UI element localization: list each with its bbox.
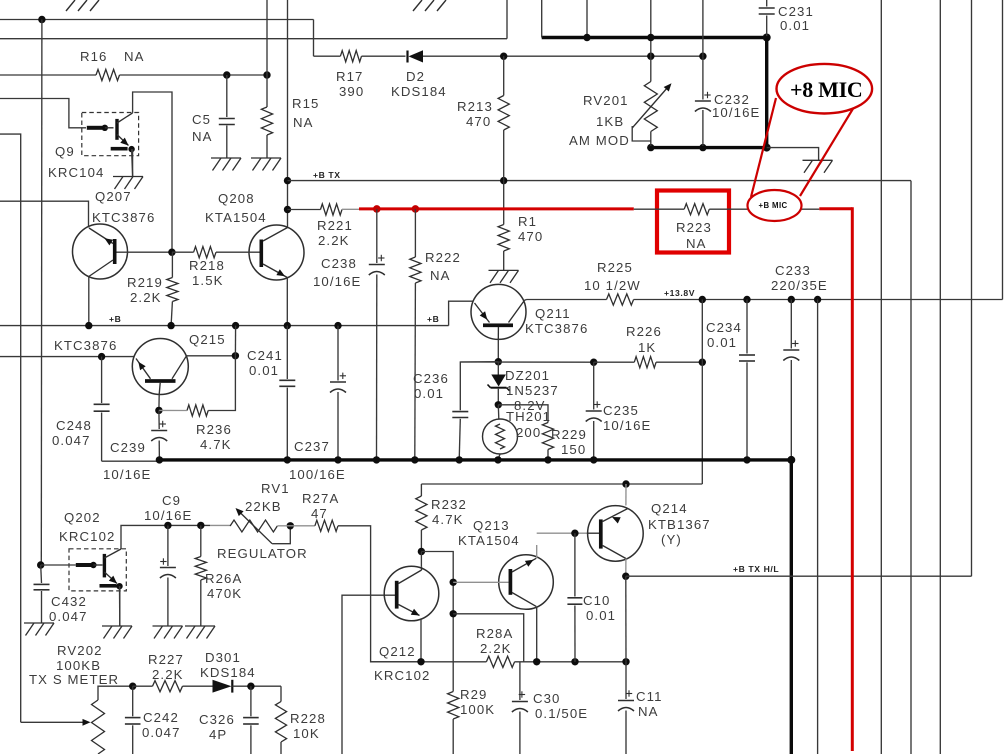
junction (101.6,356.6) [98,353,105,360]
label C231 [778,4,814,33]
vertical x=267 top [266,0,268,75]
svg-text:+B TX: +B TX [313,170,341,180]
wire Q214 emitter lead [625,484,627,506]
ground under R26A [185,626,215,639]
wire left y=134 [0,134,21,722]
wire emitter row y=661.8 [371,661,626,663]
svg-text:10K: 10K [293,726,320,741]
label R229 [551,427,587,457]
junction (338,325.6) [334,322,341,329]
wire R218 left [172,251,194,253]
svg-text:10/16E: 10/16E [313,274,361,289]
wire R1-ground [503,251,505,270]
resistor R15 [261,107,272,135]
label R227 [148,652,184,682]
label R226 [626,324,662,355]
junction (766.7,37.5) [763,34,771,42]
label Q208 [205,191,267,225]
vertical rail x=881.3 [880,0,882,754]
label R17 [336,69,364,99]
wire Q214-C11 [625,576,627,662]
resistor R221 [321,204,343,215]
svg-text:D2: D2 [406,69,425,84]
dashed box Q202 [69,549,126,591]
svg-text:0.01: 0.01 [249,363,279,378]
red callout ellipse small [748,190,802,221]
svg-text:0.047: 0.047 [49,609,88,624]
svg-text:0.01: 0.01 [707,335,737,350]
wire Q215 base row [0,356,134,358]
junction (536.7,661.8) [533,658,540,665]
potentiometer RV201 [632,56,671,146]
label C238 [313,256,361,289]
label Q9 [48,144,104,180]
label Q214 [648,501,711,547]
svg-text:R28A: R28A [476,626,513,641]
label TH201 [506,409,551,440]
svg-text:470K: 470K [207,586,242,601]
svg-text:C248: C248 [56,418,92,433]
junction (702.3,362.2) [699,359,706,366]
junction (593.7,362.2) [590,359,597,366]
svg-text:KTB1367: KTB1367 [648,517,711,532]
red callout line left [751,98,776,197]
capacitor C234 [739,300,755,460]
label C232 [712,92,760,120]
transistor Q207 [73,224,172,326]
junction (226.8,75) [223,71,230,78]
svg-text:150: 150 [561,442,586,457]
wire R17-D2 [362,55,406,57]
label Q211 [525,306,588,336]
capacitor C241 [279,326,295,460]
junction (650.8,56.2) [647,53,654,60]
vertical rail x=41.5 [40,20,43,566]
svg-text:C231: C231 [778,4,814,19]
resistor R219 [167,278,178,302]
wire R221 left [288,209,321,211]
vertical x=342 (Q212 base) [342,595,396,754]
wire D2 row left [314,55,341,57]
svg-text:2.2K: 2.2K [152,667,184,682]
wire C5-ground [226,126,228,159]
svg-text:R1: R1 [518,214,537,229]
label R27A [302,491,339,521]
thick bus right vertical [765,38,768,148]
svg-text:0.01: 0.01 [586,608,616,623]
junction (287.3,325.6) [284,322,291,329]
label D301 [200,650,256,680]
label +B TX H/L [733,564,779,574]
capacitor C242 [125,686,141,754]
svg-text:1.5K: 1.5K [192,273,224,288]
wire Q207 emitter feed [0,201,89,227]
wire R15 lead [266,75,268,107]
svg-text:0.1/50E: 0.1/50E [535,706,588,721]
label C326 [199,712,235,742]
transistor Q212 [384,552,439,662]
thick bus y=460 [159,458,791,461]
label REGULATOR [217,546,308,561]
svg-text:4P: 4P [209,727,227,742]
junction (287.3,459.9) [284,456,291,463]
svg-text:2.2K: 2.2K [318,233,350,248]
svg-text:C233: C233 [775,263,811,278]
wire R213 top [503,56,505,95]
wire R227-D301 [183,685,213,687]
svg-text:Q215: Q215 [189,332,226,347]
label RV1 [245,481,290,514]
potentiometer RV1 [230,508,290,544]
wire RV202 wiper [21,719,91,726]
red callout ellipse big [777,64,873,114]
svg-text:R225: R225 [597,260,633,275]
hatch ground (top-left) [66,0,99,11]
label C237 [289,439,346,482]
svg-text:+B: +B [427,314,439,324]
wire to R229 [498,405,548,423]
svg-text:NA: NA [430,268,451,283]
junction (171.1,325.6) [167,322,174,329]
resistor R17 [340,51,361,62]
wire +B row [0,325,449,327]
svg-text:100K: 100K [460,702,495,717]
svg-text:REGULATOR: REGULATOR [217,546,308,561]
wire +13.8V row [634,299,1003,301]
junction (376.5,459.9) [373,456,380,463]
svg-text:390: 390 [339,84,364,99]
svg-text:R218: R218 [189,258,225,273]
wire to Q9 base [0,99,86,128]
label R28A [476,626,513,656]
wire R221 right [342,208,359,210]
junction (575,661.8) [571,658,578,665]
svg-text:Q202: Q202 [64,510,101,525]
junction (503.7,180.6) [500,177,507,184]
svg-text:NA: NA [124,49,145,64]
svg-text:R229: R229 [551,427,587,442]
label C432 [49,594,88,624]
wire C5 lead [226,75,228,117]
label +B MIC [759,201,788,210]
svg-text:KRC102: KRC102 [374,668,430,683]
capacitor C237 [330,326,346,460]
resistor R228 [275,686,286,754]
wire R16 row [0,74,267,76]
junction (626,484) [622,480,629,487]
svg-text:C11: C11 [636,689,663,704]
label C239 [103,440,151,482]
svg-text:22KB: 22KB [245,499,282,514]
svg-text:200: 200 [516,425,541,440]
transistor Q215 [132,339,188,411]
svg-text:Q212: Q212 [379,644,416,659]
junction (593.7,459.9) [590,456,597,463]
svg-text:KTA1504: KTA1504 [458,533,520,548]
svg-text:C242: C242 [143,710,179,725]
junction (159.4,459.9) [156,456,163,463]
svg-text:D301: D301 [205,650,241,665]
svg-text:C238: C238 [321,256,357,271]
junction (250.9,686.2) [247,683,254,690]
wire D2-junction [423,55,703,57]
vertical x=287.5 (Q208 collector) [287,0,289,228]
thick bus top [542,36,767,39]
wire to R227 [133,685,153,687]
svg-text:Q207: Q207 [95,189,132,204]
vertical x=650.8 top [650,0,652,56]
wire to mic ground [767,148,819,160]
capacitor C232 [695,56,711,146]
svg-text:NA: NA [192,129,213,144]
resistor R222 [410,209,421,460]
svg-text:KTC3876: KTC3876 [92,210,155,225]
svg-text:C30: C30 [533,691,561,706]
svg-text:R17: R17 [336,69,364,84]
svg-text:10/16E: 10/16E [712,105,760,120]
zener DZ201 [488,362,510,405]
wire y=484 row [421,483,702,485]
label R236 [196,422,232,452]
label R219 [127,275,163,305]
vertical rail x=911 (+B TX) [910,181,912,754]
svg-text:+B: +B [109,314,121,324]
label R232 [431,497,467,527]
label R16 [80,49,145,64]
label C5 [192,112,213,144]
junction (235.6,325.6) [232,322,239,329]
label +8 MIC [790,77,862,102]
transistor Q214 [587,506,643,577]
wire R223 left lead [634,208,684,210]
label Q202 [59,510,115,544]
label RV201 [569,93,630,148]
junction (414.8,459.9) [411,456,418,463]
vertical x=817.6 [817,300,819,754]
label C9 [144,493,192,523]
transistor Q9 [87,113,135,152]
capacitor C236 [452,362,498,460]
capacitor C326 [243,686,259,754]
svg-text:R223: R223 [676,220,712,235]
label R26A [205,571,242,601]
svg-text:4.7K: 4.7K [432,512,464,527]
red callout line right [800,107,854,196]
wire R236 left [159,409,187,411]
svg-text:TH201: TH201 [506,409,551,424]
wire R28A bypass [453,614,524,662]
ground under R15 [251,158,281,171]
label KTC3876 (Q215) [54,338,117,353]
resistor R26A [195,525,206,626]
svg-text:C326: C326 [199,712,235,727]
svg-text:KTC3876: KTC3876 [525,321,588,336]
svg-text:Q9: Q9 [55,144,75,159]
thick bus right drop [790,460,793,754]
junction (40.7,565) [37,561,44,568]
label +B TX [313,170,341,180]
label R225 [584,260,641,293]
vertical x=541.7 [541,0,543,38]
junction (702.9,56.2) [699,53,706,60]
capacitor C238 [369,209,385,460]
svg-text:0.047: 0.047 [142,725,181,740]
resistor R27A [315,520,338,531]
resistor R223 [684,204,709,215]
wire +B TX H/L [626,575,972,577]
resistor R28A [486,656,514,667]
svg-text:C234: C234 [706,320,742,335]
label C235 [603,403,651,433]
junction (747,459.9) [743,456,750,463]
svg-text:C432: C432 [51,594,87,609]
label C234 [706,320,742,350]
svg-text:C236: C236 [413,371,449,386]
svg-text:C10: C10 [583,593,611,608]
junction (459.2,459.9) [456,456,463,463]
hatch ground (top-middle) [413,0,446,11]
capacitor C248 [94,357,110,462]
red wire right segment [819,207,852,210]
label C233 [771,263,828,293]
transistor Q208 [216,225,304,326]
label C236 [413,371,449,401]
junction (625.8,576.2) [622,573,629,580]
ground under Q9 [113,177,143,190]
wire Q202 emitter [119,586,121,626]
label R1 [518,214,543,244]
label +B (left) [109,314,121,324]
svg-text:KDS184: KDS184 [200,665,256,680]
wire R213-R1 [503,130,505,225]
wire drop x=313.5 [313,20,315,57]
svg-text:R219: R219 [127,275,163,290]
vertical rail x=971.5 [971,0,973,576]
ground under C432 [24,623,54,636]
wire R232-Q213 link [421,552,453,692]
junction (498.3,361.7) [495,358,502,365]
ground +B MIC area [803,160,833,173]
resistor R213 [498,96,509,131]
svg-text:KTC3876: KTC3876 [54,338,117,353]
svg-text:DZ201: DZ201 [505,368,550,383]
label C248 [52,418,92,448]
svg-text:R15: R15 [292,96,320,111]
label R15 [292,96,320,130]
svg-text:R222: R222 [425,250,461,265]
red junction (415.4,208.9) [412,205,420,213]
dashed box Q9 [82,113,139,156]
label C242 [142,710,181,740]
wire R223 right lead [709,208,819,210]
vertical x=702.9 top [702,0,704,56]
svg-text:R221: R221 [317,218,353,233]
capacitor C231 [759,0,775,36]
svg-text:10 1/2W: 10 1/2W [584,278,641,293]
red wire vertical [851,207,854,751]
junction (267,75) [263,71,270,78]
junction (132.7,686.2) [129,683,136,690]
svg-text:R226: R226 [626,324,662,339]
svg-text:R16: R16 [80,49,108,64]
svg-text:C9: C9 [162,493,181,508]
svg-text:R236: R236 [196,422,232,437]
junction (574.9,533.2) [571,530,578,537]
label Q213 [458,518,520,548]
svg-text:100KB: 100KB [56,658,101,673]
transistor Q213 [453,545,553,662]
vertical x=235.4 [208,326,235,411]
svg-text:RV1: RV1 [261,481,290,496]
junction (650.8,147.6) [647,144,654,151]
diode D2 [406,50,423,62]
svg-text:470: 470 [466,114,491,129]
svg-text:(Y): (Y) [661,532,682,547]
svg-text:KRC102: KRC102 [59,529,115,544]
svg-text:2.2K: 2.2K [130,290,162,305]
wire Q211 collector [524,300,607,301]
junction (453.2,582.3) [450,579,457,586]
wire D301-R228 [232,685,281,687]
junction (498,459.9) [494,456,501,463]
svg-text:Q211: Q211 [535,306,571,321]
label C11 [636,689,663,719]
label RV202 [29,643,119,687]
label R213 [457,99,493,129]
diode D301 [213,680,234,693]
potentiometer RV202 [92,686,133,754]
capacitor C9 [160,525,176,626]
svg-text:R26A: R26A [205,571,242,586]
ground above Q211 [489,270,519,283]
svg-text:10/16E: 10/16E [103,467,151,482]
svg-text:R29: R29 [460,687,488,702]
junction (650.8,37.5) [647,34,654,41]
capacitor C30 [512,662,528,754]
junction (158.9,410.4) [155,407,162,414]
junction (421,661.8) [417,658,424,665]
junction (41.9,19.5) [38,16,45,23]
svg-text:R27A: R27A [302,491,339,506]
svg-text:RV202: RV202 [57,643,103,658]
label +13.8V [664,288,695,298]
junction (287.5,209.5) [284,206,291,213]
junction (235.4,355.8) [232,352,239,359]
junction (747,299.5) [743,296,750,303]
svg-text:470: 470 [518,229,543,244]
resistor R226 [634,357,656,368]
wire Q215 collector [187,355,236,357]
svg-text:C235: C235 [603,403,639,418]
capacitor C5 [219,119,235,125]
wire node 362 row [460,361,593,363]
wire Q9 emitter [132,149,133,176]
wire bus A (y=19.5) [0,19,314,21]
label +B (right) [427,314,439,324]
svg-text:10/16E: 10/16E [144,508,192,523]
svg-text:4.7K: 4.7K [200,437,232,452]
wire Q202 base [41,564,76,566]
junction (548,459.9) [544,456,551,463]
wire RV1-R27A [277,525,315,527]
wire R219 leads [171,252,172,325]
wire Q214 base row [537,532,587,534]
capacitor C11 [618,662,634,754]
svg-text:1N5237: 1N5237 [506,383,559,398]
svg-text:C237: C237 [294,439,330,454]
wire R15-ground [266,135,268,158]
vertical x=702.3 [701,300,703,485]
